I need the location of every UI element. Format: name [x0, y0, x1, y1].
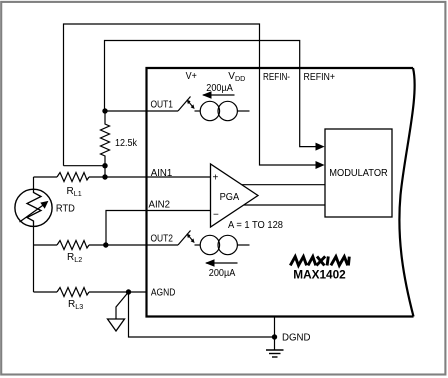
wire: REFIN+ loop: [105, 41, 318, 147]
svg-text:V+: V+: [186, 71, 197, 82]
wire: RL3 to AGND pin: [89, 291, 147, 293]
wire: AIN1 row: [34, 176, 58, 178]
wire: OUT2 row left: [34, 244, 58, 246]
svg-text:12.5k: 12.5k: [115, 138, 138, 149]
wire: 12.5k bottom to AIN1 node: [104, 166, 106, 177]
RTD internal resistor zigzag: [27, 190, 41, 227]
svg-text:200µA: 200µA: [209, 268, 236, 279]
current direction arrow for I1: [203, 94, 235, 96]
svg-text:REFIN-: REFIN-: [263, 72, 290, 83]
svg-text:A = 1 TO 128: A = 1 TO 128: [228, 220, 283, 231]
analog ground symbol (open triangle): [108, 319, 125, 331]
wire: REFIN- stub to 12.5k bottom node: [64, 165, 106, 167]
current source I1 (200uA) circle A: [200, 101, 219, 120]
node: 12.5k bottom junction: [102, 163, 107, 168]
wire: AIN1 corner down to RTD top: [33, 177, 35, 190]
wire: AGND to analog ground symbol: [116, 292, 129, 319]
svg-text:200µA: 200µA: [206, 83, 233, 94]
wire: DGND pin vertical: [274, 317, 276, 351]
IC U1 torn right edge: [399, 68, 414, 317]
svg-text:AIN1: AIN1: [151, 168, 173, 179]
switch S2 direction arrow: [189, 236, 193, 241]
current direction arrow for I2: [206, 262, 238, 264]
RTD sensor body: [15, 189, 52, 226]
svg-text:−: −: [213, 210, 219, 221]
svg-text:OUT2: OUT2: [151, 234, 174, 245]
wire: REFIN- top horizontal: [64, 24, 318, 166]
wire: PGA output- to modulator: [244, 204, 325, 206]
wire: switch to current source I2: [195, 244, 201, 246]
arrow into modulator (REFIN-): [316, 161, 325, 169]
wire: RTD bottom vertical to OUT2 and AGND rows: [33, 226, 35, 292]
svg-text:MODULATOR: MODULATOR: [329, 168, 388, 179]
switch S1 lever: [178, 97, 191, 112]
wire: AGND to DGND bus: [129, 292, 275, 337]
svg-text:AGND: AGND: [151, 288, 176, 299]
MAXIM logo: [290, 256, 349, 265]
node: AGND junction: [126, 289, 131, 294]
switch S1 direction arrow: [189, 102, 193, 107]
current source I1 circle B: [218, 101, 237, 120]
switch S2 lever: [178, 231, 191, 246]
RTD arrow: [20, 205, 45, 223]
resistor RL2: [57, 241, 89, 250]
resistor RL3: [57, 288, 89, 297]
resistor 12.5k: [101, 111, 110, 166]
wire: RL1 to PGA + input: [89, 176, 211, 178]
PGA amplifier U2 triangle: [211, 164, 259, 227]
svg-text:+: +: [213, 173, 219, 184]
svg-text:REFIN+: REFIN+: [304, 72, 336, 83]
earth ground symbol: [266, 349, 284, 351]
wire: RL2 to OUT2 pin: [89, 244, 178, 246]
svg-text:AIN2: AIN2: [149, 200, 171, 211]
arrow into modulator (REFIN+): [316, 143, 325, 151]
node: OUT2/AIN2 junction: [103, 242, 108, 247]
current source I2 (200uA) circle A: [200, 235, 219, 254]
wire: PGA output+ to modulator: [242, 184, 325, 186]
node: AIN1 junction: [102, 174, 107, 179]
current source I2 circle B: [218, 235, 237, 254]
node: OUT1/12.5k junction: [102, 108, 107, 113]
svg-text:DGND: DGND: [282, 333, 311, 344]
modulator block: [325, 129, 392, 217]
svg-text:OUT1: OUT1: [151, 100, 174, 111]
svg-text:RTD: RTD: [56, 203, 75, 214]
IC U1 MAX1402 outline: [147, 68, 414, 317]
wire: AGND row: [34, 291, 58, 293]
svg-text:PGA: PGA: [220, 192, 240, 203]
wire: switch to current source I1: [195, 110, 201, 112]
svg-text:MAX1402: MAX1402: [293, 268, 346, 282]
node: DGND junction: [272, 334, 277, 339]
wire: AIN2 row: [106, 211, 211, 246]
resistor RL1: [57, 173, 89, 182]
wire: OUT1 pin: [105, 110, 178, 112]
wire: current source I1 right stub: [237, 110, 249, 112]
wire: current source I2 right stub: [237, 244, 249, 246]
